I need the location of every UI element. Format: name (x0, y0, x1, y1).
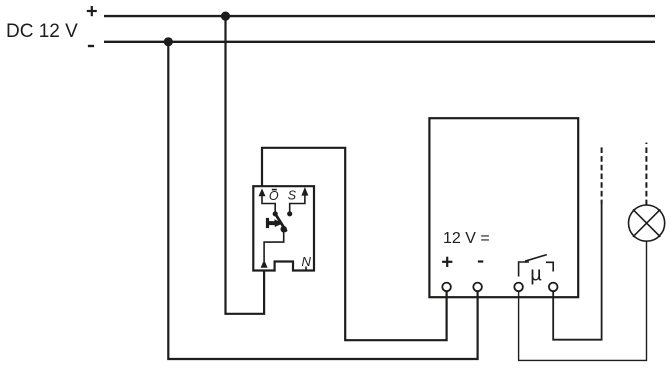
dashed continuation line left (601, 147, 603, 204)
wire mu right terminal to dashed continuation (553, 204, 601, 340)
wire 0V bus (104, 41, 655, 43)
Oe contact dot (273, 211, 278, 216)
svg-text:S: S (288, 189, 297, 203)
minus polarity symbol of supply (88, 45, 94, 47)
terminal circle minus (473, 283, 482, 292)
arrow up at common bottom terminal (261, 260, 268, 268)
arrow up at Oe contact (259, 188, 266, 196)
dashed continuation tip dash above lamp (645, 143, 647, 144)
lamp cross stroke 2 (633, 209, 660, 236)
wire mu left terminal to lamp (519, 242, 647, 361)
lamp cross stroke 1 (633, 209, 660, 236)
manual actuator T bar (268, 218, 277, 228)
switch S1 box outline with bottom notch (253, 186, 314, 270)
terminal circle mu right (549, 283, 558, 292)
minus terminal label (478, 260, 483, 262)
actuator box U1 (429, 118, 578, 297)
lamp E1 (629, 205, 665, 241)
terminal circle plus (442, 283, 451, 292)
mu contact blade (525, 255, 547, 262)
mu contact right bracket (546, 262, 553, 271)
junction dot on 0V bus (164, 37, 173, 46)
macron bar over O (272, 189, 277, 191)
svg-text:O: O (269, 189, 279, 203)
plus polarity symbol of supply (87, 6, 97, 16)
arrow up at S contact (301, 187, 308, 196)
mu contact left bracket (519, 262, 529, 277)
N terminal stub (305, 267, 307, 272)
plus terminal label (442, 257, 452, 267)
svg-text:12 V =: 12 V = (443, 230, 490, 247)
wire from 0V bus down to actuator minus terminal (168, 42, 477, 359)
manual actuator arrow head (274, 219, 282, 227)
wire Oe contact lead (262, 196, 275, 212)
svg-text:µ: µ (530, 264, 542, 286)
wire +12V bus (104, 15, 655, 17)
S contact dot (287, 211, 292, 216)
terminal circle mu left (514, 283, 523, 292)
svg-text:DC 12 V: DC 12 V (6, 21, 78, 42)
switch pivot dot (281, 226, 287, 232)
dashed continuation line above lamp (645, 147, 647, 205)
junction dot on +12V bus (221, 12, 230, 21)
switch lever (275, 214, 286, 232)
wire S contact lead (290, 195, 305, 212)
wire from pivot to common bottom terminal (264, 230, 284, 261)
wire from +12V bus down and up to switch common terminal (226, 16, 265, 314)
wire from switch Oe contact up over to actuator plus terminal (262, 148, 447, 340)
